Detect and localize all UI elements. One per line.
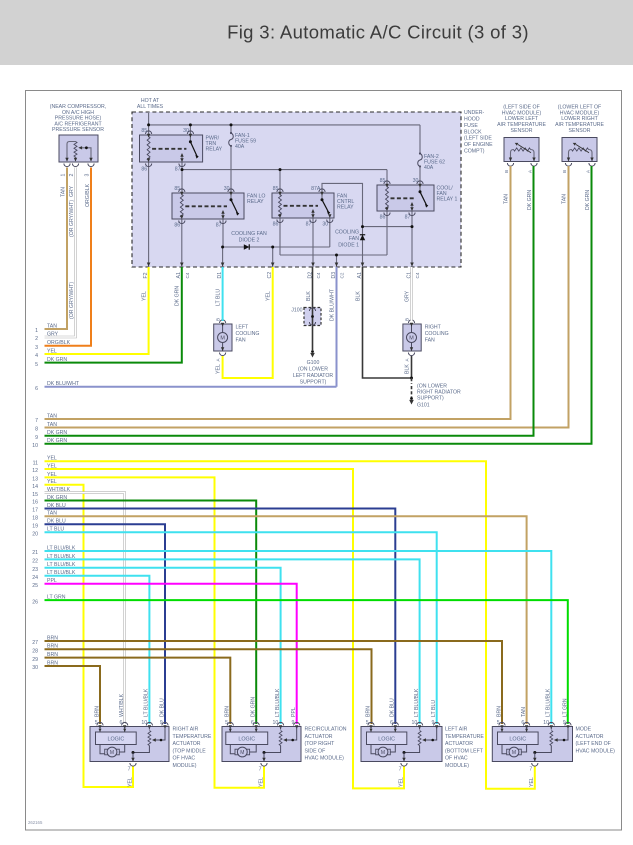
svg-text:DK BLU/WHT: DK BLU/WHT: [47, 381, 80, 387]
svg-text:RELAY: RELAY: [206, 147, 223, 153]
svg-text:DIODE 2: DIODE 2: [239, 238, 260, 244]
svg-text:1: 1: [61, 174, 67, 177]
svg-text:4: 4: [35, 353, 38, 359]
svg-text:ACTUATOR: ACTUATOR: [173, 741, 201, 747]
svg-text:85: 85: [380, 178, 386, 184]
svg-text:YEL: YEL: [141, 291, 147, 301]
svg-text:B: B: [504, 170, 509, 173]
svg-text:25: 25: [32, 583, 38, 589]
svg-text:11: 11: [33, 460, 38, 466]
svg-text:Fig 3: Automatic A/C Circuit (: Fig 3: Automatic A/C Circuit (3 of 3): [227, 22, 529, 43]
svg-text:9: 9: [160, 720, 163, 726]
svg-text:FAN: FAN: [425, 338, 435, 344]
svg-text:RIGHT: RIGHT: [425, 325, 442, 331]
svg-text:3: 3: [85, 174, 91, 177]
svg-text:LT BLU/BLK: LT BLU/BLK: [414, 688, 420, 717]
svg-text:FAN: FAN: [236, 338, 246, 344]
svg-text:87: 87: [306, 222, 312, 228]
svg-text:RECIRCULATION: RECIRCULATION: [305, 727, 347, 733]
svg-text:7: 7: [259, 767, 262, 773]
svg-text:BRN: BRN: [365, 706, 371, 717]
svg-text:BRN: BRN: [225, 706, 231, 717]
svg-text:J100: J100: [291, 308, 302, 314]
svg-text:M: M: [240, 750, 244, 756]
svg-text:18: 18: [32, 516, 38, 522]
svg-text:C2: C2: [340, 272, 345, 278]
svg-text:85: 85: [141, 128, 147, 134]
svg-text:C4: C4: [316, 272, 321, 278]
svg-text:26: 26: [32, 599, 38, 605]
svg-text:87: 87: [216, 223, 222, 229]
svg-text:87A: 87A: [311, 186, 321, 192]
svg-text:RELAY: RELAY: [337, 205, 354, 211]
svg-text:6: 6: [521, 720, 524, 726]
svg-text:YEL: YEL: [529, 777, 535, 787]
svg-text:SENSOR: SENSOR: [511, 128, 533, 134]
svg-text:C4: C4: [185, 272, 190, 278]
svg-text:LT BLU: LT BLU: [431, 700, 437, 717]
svg-text:10: 10: [543, 720, 549, 726]
svg-text:7: 7: [35, 418, 38, 424]
svg-text:262165: 262165: [28, 820, 43, 825]
svg-text:M: M: [512, 750, 516, 756]
svg-text:LEFT AIR: LEFT AIR: [445, 727, 468, 733]
svg-text:9: 9: [35, 435, 38, 441]
svg-text:C4: C4: [415, 272, 420, 278]
svg-text:9: 9: [563, 720, 566, 726]
svg-text:(LEFT END OF: (LEFT END OF: [576, 741, 611, 747]
svg-text:YEL: YEL: [127, 777, 133, 787]
svg-text:30: 30: [322, 222, 328, 228]
svg-text:TAN: TAN: [504, 194, 510, 204]
svg-text:8: 8: [35, 427, 38, 433]
svg-text:COOLING: COOLING: [425, 331, 449, 337]
svg-text:3: 3: [35, 345, 38, 351]
svg-text:M: M: [220, 336, 225, 342]
svg-text:(LEFT SIDE: (LEFT SIDE: [464, 136, 492, 142]
svg-text:UNDER-: UNDER-: [464, 110, 484, 116]
svg-text:HVAC MODULE): HVAC MODULE): [305, 756, 345, 762]
svg-text:DK BLU/WHT: DK BLU/WHT: [329, 288, 335, 321]
svg-text:LT BLU: LT BLU: [215, 289, 221, 306]
svg-text:6: 6: [390, 720, 393, 726]
svg-text:7: 7: [529, 767, 532, 773]
svg-text:DK GRN: DK GRN: [527, 190, 533, 210]
svg-text:5: 5: [35, 362, 38, 368]
svg-text:SENSOR: SENSOR: [569, 128, 591, 134]
svg-text:40A: 40A: [424, 165, 434, 171]
svg-text:(BOTTOM LEFT: (BOTTOM LEFT: [445, 748, 484, 754]
svg-text:5: 5: [225, 720, 228, 726]
svg-text:LEFT RADIATOR: LEFT RADIATOR: [293, 373, 334, 379]
svg-text:RELAY 1: RELAY 1: [437, 197, 458, 203]
svg-text:LOGIC: LOGIC: [107, 736, 124, 742]
svg-text:COOLING FAN: COOLING FAN: [231, 231, 267, 237]
svg-text:ACTUATOR: ACTUATOR: [576, 734, 604, 740]
svg-text:23: 23: [32, 567, 38, 573]
svg-text:30: 30: [413, 178, 419, 184]
svg-text:ACTUATOR: ACTUATOR: [305, 734, 333, 740]
svg-text:COOLING: COOLING: [236, 331, 260, 337]
svg-text:B: B: [562, 170, 567, 173]
svg-text:MODULE): MODULE): [173, 763, 197, 769]
svg-text:86: 86: [273, 222, 279, 228]
svg-text:22: 22: [32, 559, 38, 565]
svg-text:MODULE): MODULE): [445, 763, 469, 769]
svg-text:YEL: YEL: [47, 348, 57, 354]
svg-text:40A: 40A: [235, 144, 245, 150]
svg-text:7: 7: [128, 767, 131, 773]
svg-text:DK GRN: DK GRN: [251, 697, 257, 717]
svg-text:5: 5: [497, 720, 500, 726]
svg-text:ALL TIMES: ALL TIMES: [137, 104, 164, 110]
svg-text:DK BLU: DK BLU: [159, 698, 165, 717]
svg-text:87: 87: [405, 215, 411, 221]
svg-text:27: 27: [32, 640, 38, 646]
svg-text:5: 5: [366, 720, 369, 726]
svg-text:DIODE 1: DIODE 1: [338, 243, 359, 249]
svg-text:B: B: [405, 318, 410, 321]
svg-text:TAN: TAN: [61, 187, 67, 197]
svg-text:FAN: FAN: [349, 236, 359, 242]
svg-text:GRY: GRY: [404, 290, 410, 302]
svg-text:12: 12: [32, 468, 38, 474]
svg-text:M: M: [381, 750, 385, 756]
svg-text:FUSE: FUSE: [464, 123, 478, 129]
svg-text:85: 85: [174, 186, 180, 192]
svg-text:14: 14: [32, 484, 38, 490]
svg-text:7: 7: [399, 767, 402, 773]
svg-text:24: 24: [32, 575, 38, 581]
svg-text:RELAY: RELAY: [247, 199, 264, 205]
svg-text:HOOD: HOOD: [464, 117, 480, 123]
svg-text:LOGIC: LOGIC: [238, 736, 255, 742]
svg-text:PRESSURE SENSOR: PRESSURE SENSOR: [52, 127, 104, 133]
svg-text:6: 6: [35, 386, 38, 392]
svg-text:BRN: BRN: [496, 706, 502, 717]
svg-text:85: 85: [273, 186, 279, 192]
svg-text:30: 30: [183, 128, 189, 134]
svg-text:BRN: BRN: [94, 706, 100, 717]
svg-text:RIGHT AIR: RIGHT AIR: [173, 727, 199, 733]
svg-text:OF ENGINE: OF ENGINE: [464, 142, 493, 148]
svg-text:OF HVAC: OF HVAC: [445, 756, 468, 762]
svg-text:BLOCK: BLOCK: [464, 129, 482, 135]
svg-text:LT BLU/BLK: LT BLU/BLK: [275, 688, 281, 717]
svg-text:6: 6: [120, 720, 123, 726]
svg-text:OF HVAC: OF HVAC: [173, 756, 196, 762]
svg-text:10: 10: [141, 720, 147, 726]
svg-text:SIDE OF: SIDE OF: [305, 748, 326, 754]
svg-text:BLK: BLK: [405, 364, 411, 374]
svg-text:86: 86: [141, 167, 147, 173]
svg-text:ACTUATOR: ACTUATOR: [445, 741, 473, 747]
svg-text:20: 20: [32, 531, 38, 537]
svg-text:PPL: PPL: [291, 707, 297, 717]
svg-text:LOGIC: LOGIC: [509, 736, 526, 742]
svg-text:LOGIC: LOGIC: [378, 736, 395, 742]
svg-text:(ON LOWER: (ON LOWER: [298, 367, 328, 373]
svg-text:DK GRN: DK GRN: [175, 286, 181, 306]
svg-text:SUPPORT): SUPPORT): [417, 396, 444, 402]
svg-text:13: 13: [32, 477, 38, 483]
svg-text:M: M: [409, 336, 414, 342]
svg-text:21: 21: [32, 550, 38, 556]
svg-text:BLK: BLK: [355, 291, 361, 301]
svg-text:YEL: YEL: [216, 364, 222, 374]
svg-text:LT GRN: LT GRN: [562, 698, 568, 717]
svg-text:1: 1: [35, 328, 38, 334]
svg-text:15: 15: [32, 492, 38, 498]
svg-text:MODE: MODE: [576, 727, 592, 733]
svg-text:19: 19: [32, 523, 38, 529]
svg-text:87: 87: [175, 167, 181, 173]
svg-text:BLK: BLK: [306, 291, 312, 301]
svg-text:COOLING: COOLING: [335, 230, 359, 236]
svg-text:M: M: [110, 750, 114, 756]
svg-text:2: 2: [35, 336, 38, 342]
svg-text:COMPT): COMPT): [464, 148, 485, 154]
svg-text:86: 86: [174, 223, 180, 229]
svg-text:5: 5: [95, 720, 98, 726]
svg-text:LEFT: LEFT: [236, 325, 250, 331]
svg-text:(TOP RIGHT: (TOP RIGHT: [305, 741, 336, 747]
svg-text:HVAC MODULE): HVAC MODULE): [576, 748, 616, 754]
svg-text:B: B: [216, 318, 221, 321]
svg-text:DK GRN: DK GRN: [47, 357, 67, 363]
svg-text:LT BLU/BLK: LT BLU/BLK: [144, 688, 150, 717]
svg-text:TAN: TAN: [521, 707, 527, 717]
svg-text:YEL: YEL: [258, 777, 264, 787]
svg-text:6: 6: [251, 720, 254, 726]
svg-text:YEL: YEL: [266, 291, 272, 301]
svg-text:17: 17: [32, 508, 38, 514]
svg-text:28: 28: [32, 648, 38, 654]
svg-text:G101: G101: [417, 403, 430, 409]
svg-text:29: 29: [32, 657, 38, 663]
svg-text:30: 30: [32, 665, 38, 671]
svg-text:DK BLU: DK BLU: [390, 698, 396, 717]
svg-text:9: 9: [292, 720, 295, 726]
svg-text:YEL: YEL: [398, 777, 404, 787]
svg-text:86: 86: [380, 215, 386, 221]
svg-text:TEMPERATURE: TEMPERATURE: [173, 734, 212, 740]
svg-text:DK GRN: DK GRN: [585, 190, 591, 210]
svg-text:SUPPORT): SUPPORT): [300, 380, 327, 386]
svg-text:10: 10: [412, 720, 418, 726]
svg-text:9: 9: [432, 720, 435, 726]
svg-text:16: 16: [32, 500, 38, 506]
svg-text:(TOP MIDDLE: (TOP MIDDLE: [173, 748, 207, 754]
svg-text:30: 30: [224, 186, 230, 192]
svg-text:TEMPERATURE: TEMPERATURE: [445, 734, 484, 740]
svg-text:LT BLU/BLK: LT BLU/BLK: [546, 688, 552, 717]
svg-text:G100: G100: [307, 360, 320, 366]
svg-text:10: 10: [32, 443, 38, 449]
svg-text:TAN: TAN: [562, 194, 568, 204]
svg-text:WHT/BLK: WHT/BLK: [119, 693, 125, 717]
svg-text:10: 10: [273, 720, 279, 726]
